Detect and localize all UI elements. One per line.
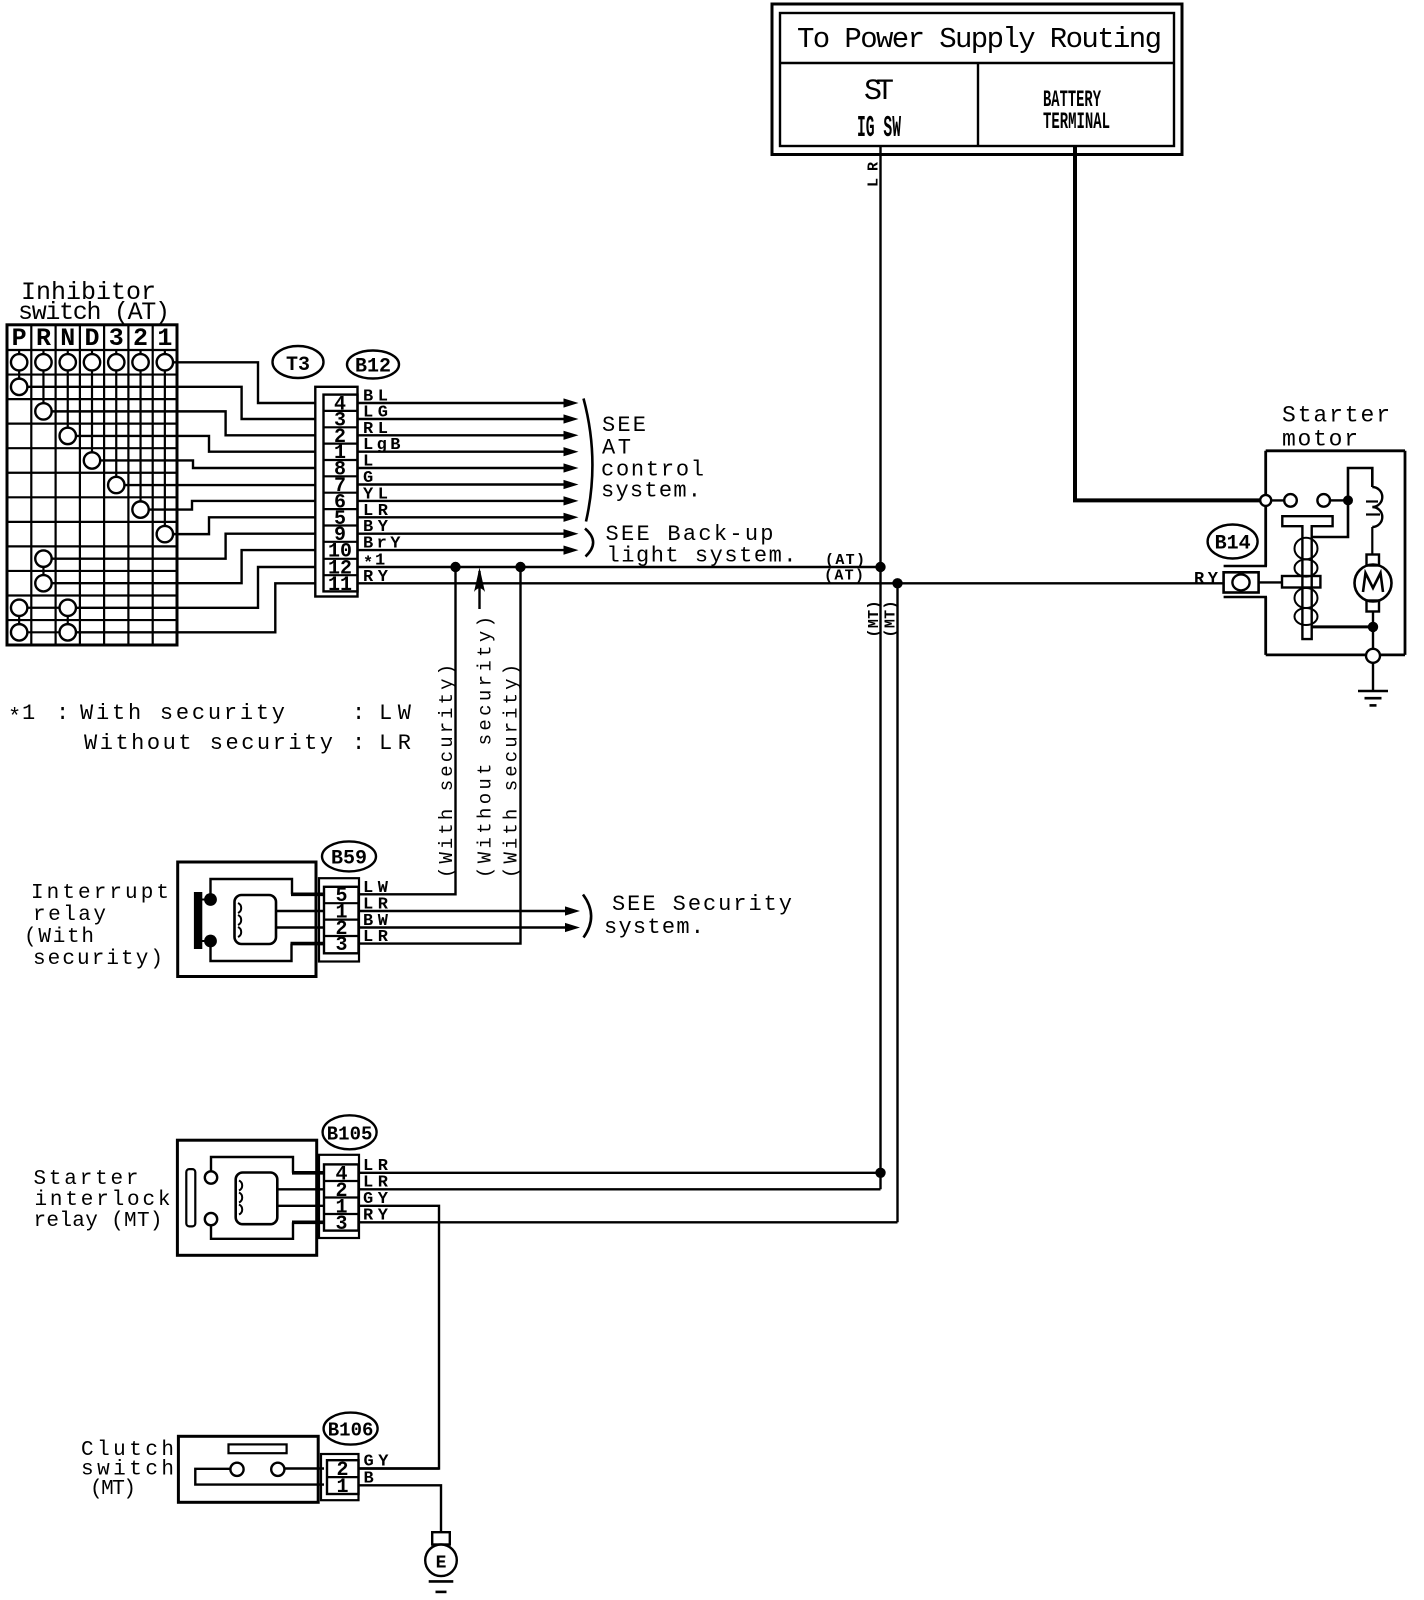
svg-text:SEE Security: SEE Security (612, 892, 792, 917)
interrupt relay box (178, 862, 316, 977)
svg-text:3: 3 (335, 1213, 347, 1236)
wire from RY junction down to starter interlock relay pin 3 (896, 583, 898, 1222)
svg-text:B105: B105 (327, 1124, 373, 1146)
connector B12 pin housing (315, 387, 357, 597)
svg-text:B12: B12 (355, 356, 391, 379)
connector B106 pin housing (321, 1454, 359, 1500)
junction dot on *1 wire (with security tap 2) (515, 562, 525, 572)
junction node (AT) on *1 wire (875, 562, 885, 572)
svg-text:relay: relay (33, 904, 106, 927)
svg-text:ST: ST (864, 75, 894, 109)
wire RY pin3 to vertical (359, 1221, 898, 1223)
wire *1 from B12 pin 12 to (AT) junction (359, 566, 881, 568)
svg-text:To Power Supply Routing: To Power Supply Routing (797, 23, 1162, 56)
svg-text:B59: B59 (331, 848, 367, 871)
svg-text:SEE: SEE (602, 413, 646, 438)
brace for Back-up light system (585, 529, 593, 557)
svg-text:(MT): (MT) (866, 601, 883, 638)
svg-text:Starter: Starter (34, 1168, 139, 1191)
svg-text:11: 11 (328, 574, 352, 597)
svg-text:switch (AT): switch (AT) (18, 298, 170, 327)
svg-text:E: E (436, 1554, 447, 1574)
switch position link lines (18, 350, 20, 387)
wire RY into solenoid (1259, 581, 1283, 583)
svg-text:system.: system. (601, 479, 701, 504)
svg-text:IG SW: IG SW (857, 111, 901, 146)
wire to case terminal (1372, 632, 1374, 649)
junction dot at starter interlock (875, 1168, 885, 1178)
wire GY pin1 to clutch switch (359, 1206, 440, 1469)
wire plunger to motor ground (thick) (1311, 625, 1373, 628)
svg-text:1: 1 (157, 324, 172, 353)
junction dot under motor (1368, 622, 1378, 632)
svg-text:(MT): (MT) (883, 601, 900, 638)
solenoid trigger contact bar (1282, 576, 1320, 588)
wire (with security) from *1 junction to B59 pin 5 (359, 567, 456, 894)
RY connector receptacle lines (1224, 565, 1267, 567)
wire field coil to motor (1371, 527, 1373, 555)
svg-text::: : (352, 701, 365, 726)
pull-in coil rings (1295, 538, 1318, 560)
ground symbol at starter motor (1372, 663, 1374, 691)
starter interlock relay armature (open) (186, 1169, 195, 1226)
junction dot battery feed (1343, 495, 1353, 505)
svg-text:N: N (60, 324, 75, 353)
brace for security system (583, 895, 591, 938)
svg-text:3: 3 (109, 324, 124, 353)
svg-text:Starter: Starter (1282, 403, 1390, 429)
svg-text:TERMINAL: TERMINAL (1043, 109, 1110, 135)
svg-text:(With security): (With security) (501, 664, 523, 878)
connector oval B106 (324, 1413, 378, 1445)
svg-text::: : (56, 701, 69, 726)
case ground terminal circle (1366, 649, 1380, 663)
arrows to AT control system (359, 402, 565, 404)
wire from battery dot to plunger (1311, 505, 1348, 537)
connector oval T3 (273, 346, 324, 378)
starter motor box (1266, 449, 1405, 452)
svg-text:D: D (84, 324, 99, 353)
starter interlock relay box (177, 1140, 316, 1255)
wires from inhibitor switch to connector B12 (173, 362, 316, 403)
svg-text:(AT): (AT) (825, 552, 865, 569)
switch contact circles (11, 354, 27, 370)
svg-text:(AT): (AT) (824, 568, 864, 585)
arrows to Back-up light system (359, 533, 565, 535)
starter interlock relay wire pin4 side (211, 1157, 293, 1173)
svg-text:R: R (36, 324, 51, 353)
starter motor terminals (1262, 499, 1285, 501)
clutch switch wire to pin 2 (284, 1467, 324, 1469)
inhibitor switch (AT) grid (7, 325, 177, 645)
wire motor to ground node (1372, 612, 1374, 623)
svg-text::: : (352, 731, 365, 756)
svg-text:P: P (12, 324, 27, 353)
solenoid plunger (1282, 516, 1332, 639)
svg-text:security): security) (33, 948, 163, 971)
interrupt relay wire pin3 side (211, 944, 292, 961)
svg-text:B106: B106 (328, 1420, 374, 1442)
wire from battery dot to field coil (1348, 468, 1372, 500)
wire from BATTERY TERMINAL to starter motor (thick) (1075, 146, 1262, 500)
svg-text:interlock: interlock (35, 1189, 171, 1212)
svg-text:(MT): (MT) (90, 1478, 136, 1501)
starter interlock relay wire pin3 side (211, 1222, 293, 1239)
svg-text:2: 2 (133, 324, 148, 353)
svg-text:motor: motor (1282, 427, 1358, 453)
connector oval B14 (1208, 525, 1258, 559)
svg-text:1: 1 (336, 1476, 348, 1499)
wire GY pin2 of clutch switch (359, 1467, 440, 1469)
wire LR pin2 joining vertical (359, 1188, 881, 1190)
connector B59 pin housing (319, 878, 359, 961)
clutch switch actuator slot (229, 1444, 287, 1453)
starter interlock relay coil taps (277, 1188, 325, 1190)
svg-text:T3: T3 (286, 354, 310, 377)
junction dot on *1 wire (with security tap) (450, 562, 460, 572)
wire (with security) from *1 junction 2 to B59 pin 3 (359, 567, 521, 944)
wire from (AT) junction down to starter interlock relay pin 4 (879, 567, 881, 1189)
arrow wire LR to security system (359, 910, 566, 912)
starter interlock relay coil (236, 1173, 278, 1225)
connector oval B105 (323, 1115, 377, 1149)
motor M symbol (1367, 555, 1380, 566)
ground E symbol (432, 1532, 450, 1544)
wire LR pin4 to (MT) junction (359, 1172, 881, 1174)
interrupt relay coil (235, 895, 277, 944)
interrupt relay armature (closed) (194, 892, 202, 949)
wire B pin1 of clutch switch to ground (359, 1485, 442, 1532)
svg-text:(With security): (With security) (436, 664, 458, 878)
interrupt relay contact dots (204, 893, 217, 906)
starter interlock relay contact circles (205, 1171, 217, 1183)
wire RY from B12 pin 11 to starter motor connector (359, 582, 1224, 584)
svg-text:3: 3 (335, 934, 347, 957)
arrow wire BW to security system (359, 926, 566, 928)
interrupt relay wire pin5 side (211, 879, 293, 896)
RY connector terminal (1224, 572, 1259, 592)
power supply routing box (772, 4, 1182, 155)
clutch switch contact circles (230, 1463, 243, 1476)
svg-text:*: * (8, 705, 21, 730)
svg-text:(With: (With (24, 926, 94, 949)
svg-text:1: 1 (22, 701, 35, 726)
connector oval B59 (322, 841, 376, 871)
svg-text:Interrupt: Interrupt (31, 882, 169, 905)
svg-text:relay (MT): relay (MT) (34, 1210, 163, 1233)
brace for AT control system (584, 399, 593, 522)
connector oval B12 (347, 351, 399, 379)
svg-text:system.: system. (604, 915, 704, 940)
clutch switch contact bar (195, 1469, 324, 1485)
svg-text:light system.: light system. (607, 544, 797, 569)
connector B105 pin housing (319, 1155, 359, 1238)
field coil (1372, 487, 1382, 527)
wire LR from ST/IG SW down to (AT) junction (879, 146, 881, 567)
junction node (AT) on RY wire (892, 578, 902, 588)
interrupt relay coil taps (276, 910, 325, 912)
arrow (without security) pointing at *1 wire (478, 571, 480, 609)
clutch switch box (178, 1436, 318, 1502)
svg-text:B14: B14 (1215, 533, 1251, 556)
